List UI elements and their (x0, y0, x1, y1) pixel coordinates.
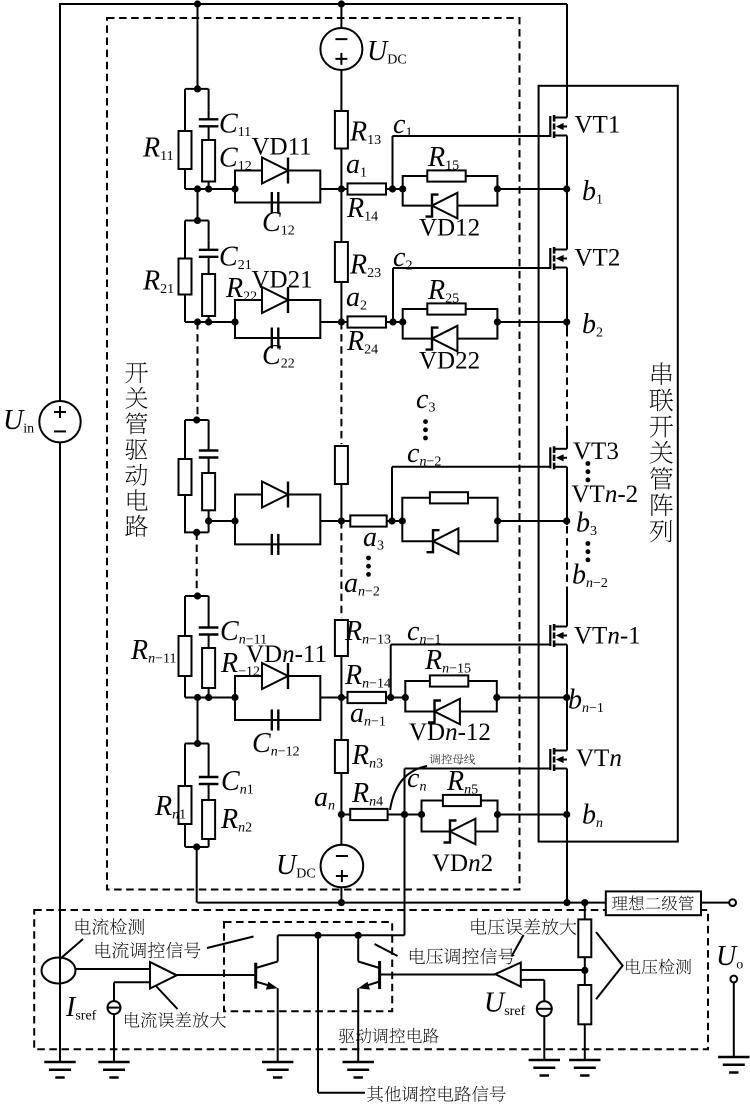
wire UDC bottom to rail (340, 887, 342, 902)
resistor Rn3 (335, 740, 348, 773)
wire amp2 to Q2 base (381, 974, 495, 976)
wire Usref to ground (543, 1016, 545, 1060)
inner dashed box drive regulation (224, 922, 392, 1011)
driver circuit dashed box (107, 18, 520, 890)
resistor 42 right (202, 648, 215, 688)
wire 2 right leg lower (208, 316, 210, 322)
wire b3 down (566, 521, 568, 525)
capacitor 1 C lower (272, 192, 279, 213)
terminal output- (730, 976, 737, 983)
junction divider tap (581, 967, 588, 974)
wire Rn3 to an (340, 773, 342, 815)
node b4 (563, 694, 570, 701)
ground Q2 (343, 1062, 374, 1078)
resistor stage3 parallel (430, 492, 468, 503)
label current detect (76, 918, 145, 935)
wire s3 tap (209, 520, 235, 522)
leader current detect (60, 939, 83, 959)
wire left bus upper (59, 4, 61, 401)
wire collector rail (278, 934, 405, 936)
resistor 15 (427, 170, 465, 181)
svg-text:VD12: VD12 (419, 215, 480, 242)
label drive regulation circuit (339, 1028, 439, 1043)
wire an to Rn4 (341, 814, 350, 816)
wire 2 top bracket (185, 220, 209, 222)
resistor 25 (427, 303, 465, 314)
transistor VT4 (550, 624, 567, 647)
capacitor stage3 upper (199, 442, 219, 474)
wire s3 to b3 (498, 520, 567, 522)
svg-text:VTn-2: VTn-2 (572, 481, 639, 508)
wire 2 to b node (497, 321, 566, 323)
wire a3 to R (341, 520, 350, 522)
leader voltage error amp (512, 935, 524, 957)
junction 1 bracket (194, 85, 201, 92)
wire Q2 emitter to ground (357, 988, 359, 1062)
amp current error (150, 962, 177, 989)
wire Rn-13 to a(n-1) (340, 656, 342, 698)
wire c2 to gate (393, 267, 551, 269)
transistor Q2 (358, 961, 379, 990)
capacitor 2 C lower (272, 328, 279, 349)
wire 1 node to loop (386, 188, 403, 190)
wire s3 R to a3 (340, 484, 342, 521)
resistor stage3 vertical (335, 446, 348, 484)
source Usref (537, 1001, 552, 1016)
wire a1 to R23 (340, 189, 342, 242)
wire s3 left leg (184, 420, 186, 459)
wire s5 R-zener loop (422, 801, 498, 832)
wire s3 node to loop (387, 520, 403, 522)
ellipsis VT (586, 461, 591, 482)
capacitor 2 C upper (199, 241, 219, 274)
wire VT2 source to b2 (566, 268, 568, 323)
svg-text:VDn2: VDn2 (432, 850, 493, 877)
wire c1 to gate (393, 135, 551, 137)
wire s3 to node a3 (320, 520, 341, 522)
ellipsis c (423, 419, 428, 440)
wire c2 vertical (392, 268, 394, 322)
wire s5 left leg lower (184, 824, 186, 847)
label regulation bus (430, 754, 475, 764)
transistor VTn (550, 748, 567, 771)
zener VD12 (426, 193, 458, 219)
wire divider upper (584, 903, 586, 920)
wire 1 top bracket (185, 88, 209, 90)
wire amp2 to Usref (521, 979, 545, 981)
diode VD4 series (262, 663, 288, 689)
wire 2 left leg (184, 221, 186, 259)
resistor stage3 horizontal (350, 515, 386, 526)
capacitor stage3 lower (272, 534, 279, 555)
wire R13 to a1 (340, 149, 342, 190)
svg-text:VD11: VD11 (252, 134, 312, 161)
wire cn vertical upper (404, 769, 406, 815)
resistor 14 (348, 183, 387, 194)
svg-text:VD21: VD21 (252, 267, 313, 294)
resistor 22 right (202, 274, 215, 316)
title series switch array (650, 362, 674, 542)
wire to VTn-1 drain (566, 591, 568, 627)
ideal diode box (606, 891, 701, 915)
ellipsis a (366, 556, 371, 577)
resistor divider upper (578, 919, 591, 957)
wire divider tap to amp2 (521, 969, 585, 971)
source Isref (108, 1001, 121, 1014)
svg-text:VDn-11: VDn-11 (246, 641, 327, 668)
wire stage1 to stage2 (197, 189, 199, 221)
wire 1 right leg (208, 89, 210, 110)
wire UDC to R13 (340, 70, 342, 111)
resistor Rn1 (179, 786, 192, 824)
node b1 (563, 185, 570, 192)
resistor 21 left (179, 259, 192, 295)
wire 1 to b node (497, 188, 566, 190)
wire 2 R-zener loop (403, 309, 498, 339)
wire Rn4 to loop (388, 814, 422, 816)
wire s3 right leg (208, 420, 210, 442)
wire divider to ground (584, 1024, 586, 1060)
wire bus to stage1 (197, 4, 199, 89)
wire 1 junction (185, 188, 235, 190)
wire top rail (59, 3, 567, 5)
node a4 junction (338, 694, 345, 701)
wire s5 left leg (184, 744, 186, 787)
wire Q2 collector (357, 935, 359, 961)
wire 2 diode-cap loop (235, 300, 320, 338)
label ideal diode (612, 896, 694, 911)
wire VT2 drain to b1 (566, 189, 568, 250)
capacitor 1 C upper (199, 110, 219, 140)
source Uin (39, 401, 80, 442)
leader regulation bus (390, 766, 427, 810)
wire 1 right leg lower (208, 182, 210, 190)
wire dashed left column s3-s4 (196, 532, 198, 595)
diode VD1 series (262, 158, 288, 184)
wire Usref upper (543, 980, 545, 1001)
ground Uo (718, 1057, 749, 1073)
svg-text:VTn-1: VTn-1 (574, 623, 641, 650)
wire VT1 source to b1 (566, 136, 568, 190)
wire s3 right leg lower (208, 510, 210, 532)
wire a4 to R4 (341, 697, 347, 699)
source UDC top (320, 28, 362, 70)
label voltage reg signal (410, 948, 515, 965)
label current error amp (125, 1012, 226, 1028)
wire Isref to ground (113, 1014, 115, 1062)
transistor VT3 (550, 446, 567, 469)
resistor Rn5 (443, 795, 481, 806)
wire 2 junction (185, 321, 235, 323)
junction 4 bracket (194, 592, 201, 599)
wire a1 to R4 (341, 188, 347, 190)
wire 4 node to loop (386, 697, 405, 699)
resistor 41 left (179, 636, 192, 676)
wire dashed R column s2-s3 (340, 322, 342, 444)
wire s5 right leg (208, 744, 210, 769)
node bn (563, 811, 570, 818)
svg-text:VTn: VTn (576, 745, 622, 772)
wire other signal horizontal (318, 1092, 365, 1094)
diode stage3 series (262, 482, 288, 508)
wire control bus down (404, 815, 406, 936)
wire 1 R-zener loop (403, 176, 498, 206)
wire 2 left leg lower (184, 295, 186, 323)
wire 1 diode-cap loop (235, 171, 320, 203)
wire s5 right leg lower (208, 839, 210, 847)
label other regulation signals (367, 1086, 505, 1102)
wire s5 bottom bracket (185, 846, 209, 848)
transistor VT2 (550, 247, 567, 270)
capacitor 4 C lower (272, 710, 279, 731)
wire 4 junction (185, 697, 235, 699)
title driver circuit (125, 362, 147, 537)
wire s3 left leg lower (184, 495, 186, 532)
resistor R23 (335, 242, 348, 282)
wire left bus lower (59, 442, 61, 1062)
leader current error amp (156, 986, 178, 1010)
terminal output+ (729, 899, 736, 906)
transistor Q1 (256, 962, 278, 990)
wire b2 down (566, 322, 568, 329)
resistor 12 right (202, 140, 215, 182)
wire s3 bottom bracket (184, 531, 209, 533)
ground Usref (529, 1060, 560, 1076)
zener VD42 (428, 699, 460, 725)
capacitor 4 C upper (199, 619, 219, 649)
wire 4 to node a (320, 697, 341, 699)
current sensor ellipse (42, 958, 76, 984)
wire divider middle (584, 957, 586, 985)
ground divider (569, 1060, 600, 1076)
wire Uo to ground (733, 983, 735, 1058)
label voltage error amp (471, 918, 576, 935)
wire c1 vertical (392, 136, 394, 189)
node b3 (563, 517, 570, 524)
resistor stage3 left (179, 459, 192, 495)
wire other signal vertical (317, 935, 319, 1093)
wire 4 diode-cap loop (235, 676, 320, 720)
wire Q1 collector (277, 935, 279, 961)
wire amp1 to Q1 base (177, 974, 256, 976)
wire dashed array b2-VT3 (566, 329, 568, 427)
wire 4 left leg (184, 596, 186, 636)
wire 2 node to loop (386, 321, 403, 323)
wire Isref upper (113, 982, 115, 1001)
node an junction (338, 811, 345, 818)
resistor stage3 right (202, 473, 215, 510)
wire 1 left leg (184, 89, 186, 131)
resistor 44 (348, 692, 387, 703)
wire s5 to bottom rail (196, 847, 198, 903)
wire ideal diode to output (701, 902, 729, 904)
wire 4 right leg (208, 596, 210, 619)
wire cn to VTn gate (405, 768, 551, 770)
wire 4 R-zener loop (405, 681, 497, 712)
resistor Rn4 (350, 809, 387, 820)
junction other-signal tap (314, 932, 321, 939)
svg-text:VT3: VT3 (573, 438, 619, 465)
wire stage3 top bracket (185, 419, 209, 421)
resistor Rn-13 (335, 620, 348, 656)
wire 1 to node a (320, 188, 341, 190)
wire 2 to node a (320, 321, 341, 323)
wire UDC top lead (340, 4, 342, 28)
wire c4 vertical (390, 645, 392, 698)
ground left bus (44, 1062, 75, 1078)
ground Isref (98, 1062, 129, 1078)
junction top rail / left column (194, 0, 201, 7)
wire s3 diode-cap loop (235, 495, 320, 545)
wire Q1 emitter to ground (277, 988, 279, 1062)
wire dashed R column s3-s4 (340, 521, 342, 618)
wire 1 left leg lower (184, 169, 186, 189)
wire a(n-1) to Rn3 (340, 698, 342, 741)
node a2 junction (338, 318, 345, 325)
wire VT3 source to b3 (566, 467, 568, 521)
node b2 (563, 318, 570, 325)
junction 2 bracket (194, 217, 201, 224)
amp voltage error (495, 963, 521, 987)
bottom outer dashed box (34, 910, 708, 1049)
wire an to UDC bottom (340, 815, 342, 846)
label voltage detect (626, 959, 691, 975)
wire right bus to VT1 drain (566, 4, 568, 118)
leader current reg signal (207, 937, 254, 949)
wire b(n-1) to VTn drain (566, 698, 568, 751)
junction stage5 bracket (194, 740, 201, 747)
wire c(n-2) vertical (391, 467, 393, 521)
leader voltage reg signal (375, 944, 398, 956)
transistor VT1 (550, 115, 567, 138)
series switch array box (539, 86, 678, 842)
resistor Rn2 (202, 800, 215, 839)
wire Isref to amp (114, 981, 150, 983)
resistor 11 left (179, 131, 192, 169)
diode VD2 series (262, 287, 288, 313)
wire dashed array b3-VTn-1 (566, 526, 568, 591)
svg-text:VT2: VT2 (575, 245, 621, 272)
junction Q2 collector (355, 932, 362, 939)
wire 4 top bracket (185, 595, 209, 597)
junction stage3 bracket (193, 416, 200, 423)
wire stage5 top bracket (185, 743, 209, 745)
capacitor Cn1 (199, 768, 219, 800)
zener VDn2 (444, 819, 476, 845)
wire VTn-1 source to b(n-1) (566, 645, 568, 698)
wire 2 right leg (208, 221, 210, 241)
svg-text:VDn-12: VDn-12 (409, 719, 491, 746)
wire R23 to a2 (340, 282, 342, 322)
resistor divider lower (578, 985, 591, 1024)
wire sensor to amp (76, 968, 151, 970)
resistor 45 (430, 675, 468, 686)
ellipsis b (586, 541, 591, 562)
wire VTn source to bottom rail (566, 769, 568, 903)
leader voltage detect bracket (596, 932, 623, 999)
wire c(n-2) to VT3 gate (392, 466, 551, 468)
resistor R13 (335, 111, 348, 149)
wire dashed left column s2-s3 (197, 322, 199, 419)
ground Q1 (262, 1062, 293, 1078)
label current reg signal (96, 942, 201, 959)
resistor 24 (348, 316, 387, 327)
wire c4 to gate (391, 644, 551, 646)
zener stage3 (427, 528, 459, 554)
wire s3 R-zener loop (402, 498, 497, 541)
zener VD22 (426, 326, 458, 352)
wire to VT3 drain (566, 427, 568, 449)
junction top rail / UDC (338, 0, 345, 7)
junction s5 bottom (193, 843, 200, 850)
wire stage4 to stage5 (197, 698, 199, 744)
node a1 junction (338, 185, 345, 192)
svg-text:VD22: VD22 (419, 348, 480, 375)
wire s5 to bn (498, 814, 567, 816)
node a3 junction (338, 517, 345, 524)
wire bottom rail (197, 902, 606, 904)
source UDC bottom (321, 845, 364, 888)
wire 4 right leg lower (208, 688, 210, 698)
junction s3 bottom (193, 529, 200, 536)
wire a2 to R4 (341, 321, 347, 323)
svg-text:VT1: VT1 (575, 112, 621, 139)
wire 4 to b node (497, 697, 567, 699)
wire 4 left leg lower (184, 676, 186, 698)
